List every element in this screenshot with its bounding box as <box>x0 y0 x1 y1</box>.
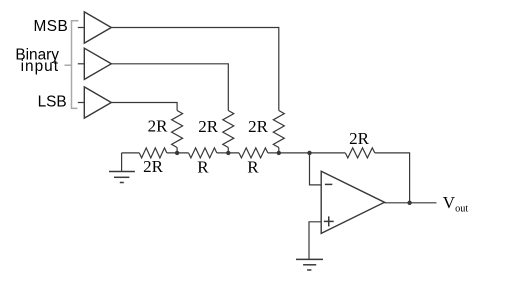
svg-text:2R: 2R <box>198 117 219 136</box>
svg-text:input: input <box>21 58 59 75</box>
svg-text:MSB: MSB <box>33 18 68 35</box>
svg-text:2R: 2R <box>148 117 169 136</box>
svg-text:2R: 2R <box>248 117 269 136</box>
svg-text:R: R <box>247 157 259 176</box>
svg-text:2R: 2R <box>143 157 164 176</box>
svg-text:LSB: LSB <box>38 94 67 111</box>
svg-text:R: R <box>197 157 209 176</box>
svg-text:2R: 2R <box>349 129 370 148</box>
